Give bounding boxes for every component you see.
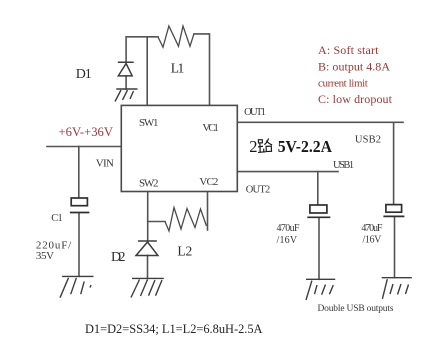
wire C1 drop [78,147,80,199]
ground D1 [115,89,138,102]
svg-text:VC1: VC1 [202,122,219,134]
svg-text:SW2: SW2 [139,178,159,190]
svg-text:current limit: current limit [318,78,368,90]
svg-text:+6V-+36V: +6V-+36V [59,124,114,139]
svg-text:C1: C1 [51,213,63,224]
capacitor USB1 470uF [307,205,330,217]
svg-text:OUT2: OUT2 [246,185,271,196]
op-amp U1 regulator IC box [121,105,237,191]
wire OUT2 [237,171,338,173]
wire D1 to ground [125,76,127,89]
svg-text:VC2: VC2 [199,176,218,188]
wire VIN input [47,146,121,148]
inductor L2 zigzag [165,208,207,232]
ground C1 [60,276,94,297]
svg-text:/16V: /16V [277,235,298,246]
ground USB2 [382,278,412,299]
svg-text:SW1: SW1 [139,117,159,129]
svg-text:/16V: /16V [363,234,383,245]
svg-text:C: low dropout: C: low dropout [318,92,393,106]
svg-text:USB2: USB2 [355,134,381,145]
wire USB2 drop [393,122,395,204]
capacitor USB2 470uF [383,205,404,217]
wire SW2 drop [147,192,149,242]
wire SW1 drop to IC [146,37,148,106]
capacitor C1 [70,198,90,213]
wire OUT1 [237,121,403,123]
wire USB1 cap to ground [318,218,320,280]
svg-text:2: 2 [249,137,257,156]
svg-text:35V: 35V [36,250,54,262]
wire D2 to ground [147,256,149,279]
svg-text:OUT1: OUT1 [244,107,266,118]
svg-text:USB1: USB1 [333,160,354,171]
wire USB1 drop [317,172,319,205]
svg-text:D1=D2=SS34; L1=L2=6.8uH-2.5A: D1=D2=SS34; L1=L2=6.8uH-2.5A [85,322,263,336]
svg-text:L1: L1 [171,61,185,76]
ground USB1 [306,279,335,300]
wire USB2 cap to ground [394,217,396,278]
glyph lu (road) hand-drawn [258,138,273,152]
ground D2 [131,278,164,297]
svg-text:B: output 4.8A: B: output 4.8A [318,59,390,73]
svg-text:470uF: 470uF [277,223,300,234]
svg-text:A: Soft start: A: Soft start [318,43,379,57]
svg-text:VIN: VIN [96,158,114,170]
svg-text:470uF: 470uF [361,223,382,234]
wire top node SW1-D1-L1 [126,37,158,62]
svg-text:L2: L2 [177,244,192,259]
svg-text:D2: D2 [111,250,126,265]
diode D1 [118,62,134,76]
wire C1 to ground [78,213,80,276]
wire SW2 to L2 [148,221,165,223]
wire VC2 riser [207,192,209,231]
svg-text:D1: D1 [76,67,92,82]
svg-text:5V-2.2A: 5V-2.2A [278,137,332,156]
inductor L1 zigzag [158,26,194,47]
diode D2 [136,241,158,256]
svg-text:Double USB outputs: Double USB outputs [318,304,394,314]
wire L1 right to VC1 [194,34,210,106]
